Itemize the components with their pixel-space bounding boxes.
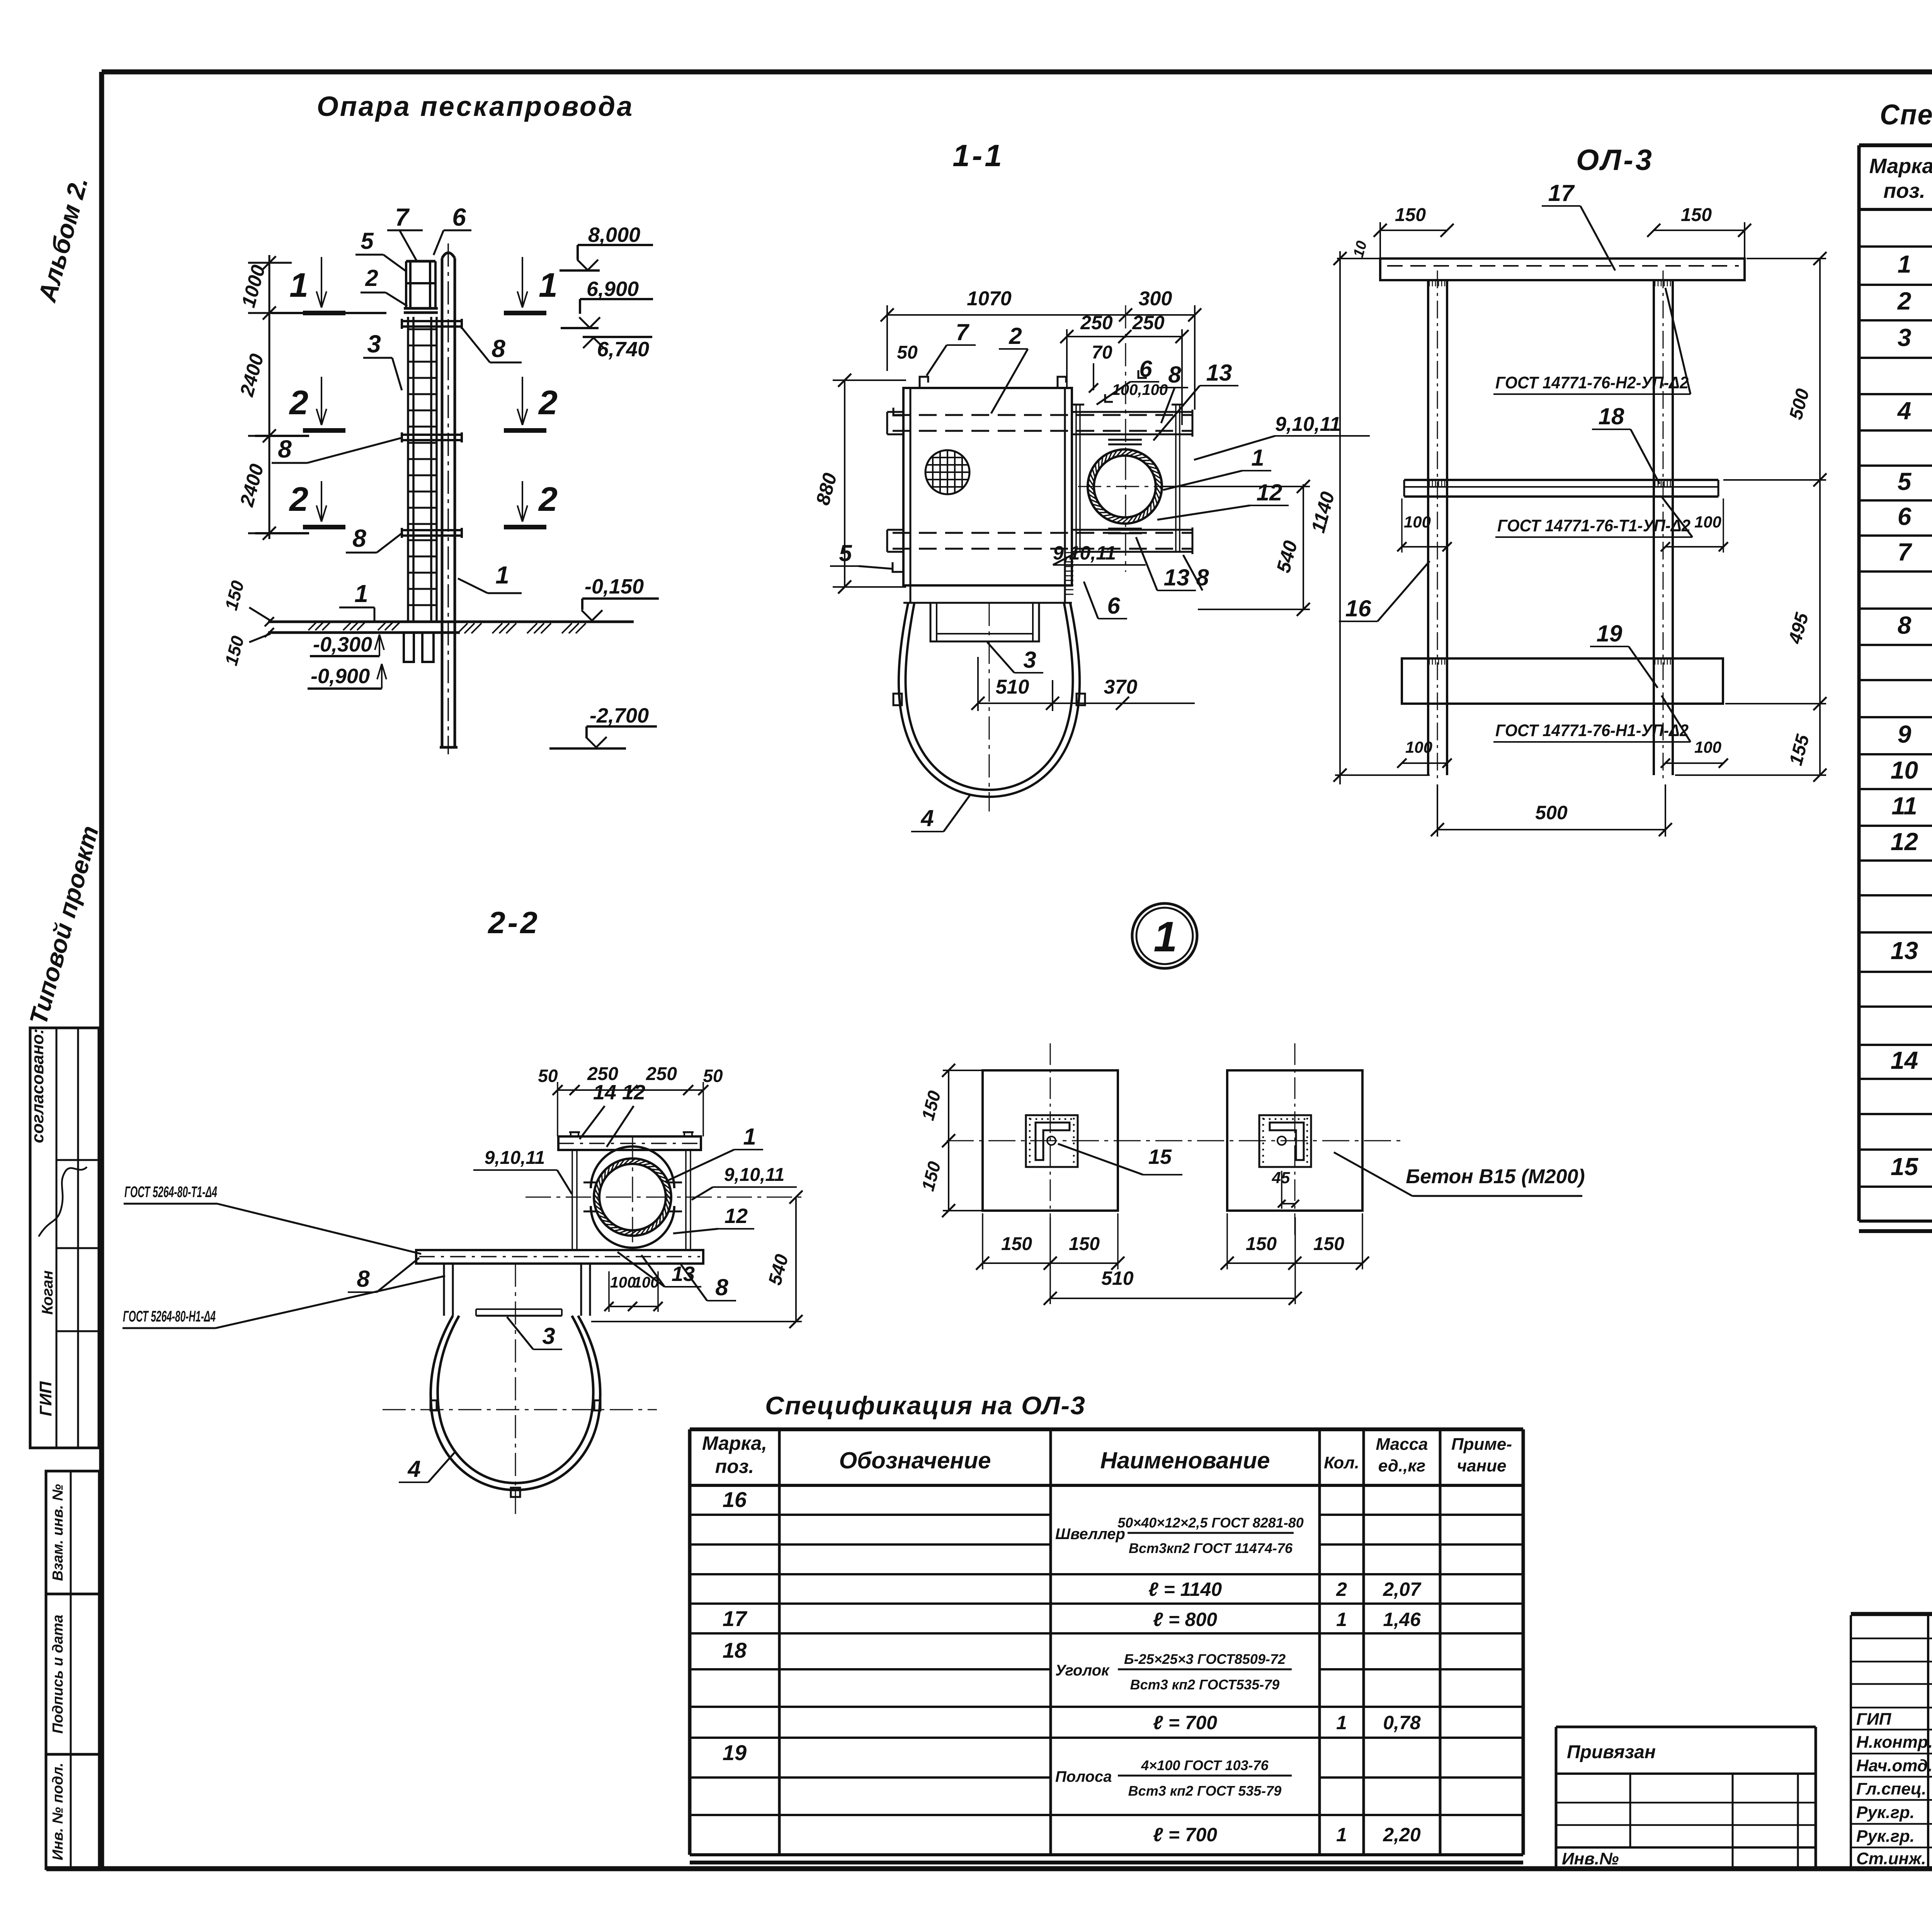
- svg-text:поз.: поз.: [1883, 179, 1925, 202]
- svg-text:3: 3: [367, 330, 381, 358]
- svg-text:14: 14: [593, 1081, 616, 1104]
- svg-text:Н.контр.: Н.контр.: [1856, 1733, 1932, 1752]
- svg-text:16: 16: [723, 1487, 747, 1512]
- svg-text:2: 2: [289, 480, 308, 518]
- svg-text:100: 100: [1694, 738, 1721, 756]
- svg-text:Инв. № подл.: Инв. № подл.: [50, 1763, 66, 1861]
- svg-text:Спецификация на опору песко: Спецификация на опору пескопровода: [1880, 99, 1932, 131]
- svg-text:Опара пескапровода: Опара пескапровода: [317, 91, 634, 122]
- svg-text:50: 50: [538, 1066, 558, 1086]
- svg-text:11: 11: [1891, 792, 1917, 820]
- svg-text:500: 500: [1535, 802, 1568, 823]
- svg-text:14: 14: [1891, 1046, 1918, 1074]
- svg-text:ℓ = 700: ℓ = 700: [1153, 1824, 1217, 1846]
- svg-text:100: 100: [1694, 513, 1721, 531]
- svg-text:150: 150: [1681, 205, 1712, 225]
- svg-text:Подпись и дата: Подпись и дата: [50, 1614, 66, 1733]
- svg-text:-0,300: -0,300: [313, 633, 372, 656]
- svg-text:5: 5: [839, 540, 852, 566]
- svg-text:Нач.отд.: Нач.отд.: [1856, 1756, 1932, 1775]
- svg-text:19: 19: [723, 1740, 747, 1765]
- svg-text:Инв.№: Инв.№: [1562, 1849, 1619, 1868]
- svg-text:18: 18: [723, 1638, 747, 1662]
- svg-text:Масса: Масса: [1376, 1435, 1428, 1454]
- svg-text:9: 9: [1898, 720, 1912, 748]
- svg-text:ГОСТ 14771-76-Н1-УП-Δ2: ГОСТ 14771-76-Н1-УП-Δ2: [1495, 721, 1689, 740]
- svg-text:8: 8: [352, 524, 366, 552]
- svg-text:2: 2: [1009, 323, 1022, 349]
- svg-text:15: 15: [1891, 1153, 1919, 1180]
- svg-text:2: 2: [1336, 1579, 1347, 1600]
- svg-text:100: 100: [1405, 738, 1432, 756]
- svg-text:1: 1: [289, 266, 308, 304]
- svg-text:18: 18: [1599, 403, 1624, 429]
- svg-text:13: 13: [1164, 565, 1190, 590]
- svg-text:Кол.: Кол.: [1324, 1453, 1359, 1472]
- svg-text:Рук.гр.: Рук.гр.: [1856, 1827, 1915, 1846]
- svg-text:50: 50: [703, 1066, 723, 1086]
- svg-text:3: 3: [1023, 647, 1036, 673]
- svg-text:чание: чание: [1457, 1456, 1506, 1475]
- svg-text:4: 4: [1897, 397, 1912, 425]
- svg-text:150: 150: [1001, 1234, 1032, 1254]
- svg-text:Привязан: Привязан: [1567, 1742, 1656, 1762]
- svg-text:4: 4: [920, 805, 934, 831]
- svg-text:8: 8: [1196, 565, 1209, 590]
- svg-text:2,20: 2,20: [1383, 1824, 1421, 1846]
- svg-text:70: 70: [1092, 342, 1112, 363]
- svg-text:45: 45: [1272, 1169, 1290, 1187]
- svg-text:Марка,: Марка,: [1869, 155, 1932, 178]
- svg-text:Б-25×25×3 ГОСТ8509-72: Б-25×25×3 ГОСТ8509-72: [1124, 1651, 1286, 1667]
- svg-text:3: 3: [542, 1323, 555, 1349]
- svg-text:Вст3кп2 ГОСТ 11474-76: Вст3кп2 ГОСТ 11474-76: [1129, 1540, 1293, 1556]
- svg-text:9,10,11: 9,10,11: [724, 1165, 785, 1185]
- svg-text:4: 4: [407, 1456, 420, 1482]
- svg-text:17: 17: [1548, 180, 1575, 206]
- svg-text:8,000: 8,000: [588, 223, 640, 247]
- svg-text:2: 2: [538, 480, 558, 518]
- svg-text:10: 10: [1891, 756, 1918, 784]
- svg-text:1: 1: [1336, 1609, 1347, 1630]
- svg-text:100: 100: [633, 1274, 659, 1291]
- svg-text:19: 19: [1597, 621, 1622, 646]
- svg-text:ОЛ-3: ОЛ-3: [1576, 144, 1654, 177]
- svg-text:16: 16: [1345, 595, 1371, 621]
- svg-text:150: 150: [1069, 1234, 1100, 1254]
- svg-text:Приме-: Приме-: [1451, 1435, 1512, 1454]
- svg-text:150: 150: [1395, 205, 1426, 225]
- svg-text:8: 8: [715, 1274, 728, 1300]
- svg-text:Полоса: Полоса: [1055, 1768, 1112, 1785]
- svg-text:250: 250: [1080, 312, 1113, 333]
- svg-text:1: 1: [495, 561, 509, 589]
- svg-text:1,46: 1,46: [1383, 1609, 1421, 1630]
- svg-text:ГОСТ 14771-76-Н2-УП-Δ2: ГОСТ 14771-76-Н2-УП-Δ2: [1495, 373, 1689, 392]
- svg-text:Гл.спец.: Гл.спец.: [1856, 1779, 1926, 1798]
- svg-text:150: 150: [1246, 1234, 1277, 1254]
- svg-text:13: 13: [1891, 937, 1918, 964]
- svg-text:-0,150: -0,150: [585, 575, 644, 598]
- svg-text:1: 1: [1153, 913, 1177, 961]
- svg-text:250: 250: [646, 1064, 677, 1084]
- svg-text:3: 3: [1898, 324, 1912, 352]
- svg-text:2-2: 2-2: [487, 905, 540, 940]
- svg-text:2: 2: [1897, 287, 1912, 315]
- svg-text:2: 2: [538, 383, 558, 422]
- svg-text:согласовано:: согласовано:: [28, 1029, 47, 1143]
- svg-text:100: 100: [1404, 513, 1431, 531]
- svg-text:ℓ = 700: ℓ = 700: [1153, 1712, 1217, 1733]
- svg-text:ГОСТ 5264-80-Н1-Δ4: ГОСТ 5264-80-Н1-Δ4: [123, 1308, 216, 1325]
- svg-text:9,10,11: 9,10,11: [485, 1148, 545, 1168]
- svg-text:1: 1: [1251, 445, 1264, 471]
- svg-text:2: 2: [289, 383, 308, 422]
- svg-text:13: 13: [1206, 360, 1232, 386]
- svg-text:6: 6: [452, 203, 466, 231]
- svg-text:7: 7: [956, 319, 969, 345]
- svg-text:ГОСТ 5264-80-Т1-Δ4: ГОСТ 5264-80-Т1-Δ4: [124, 1184, 217, 1201]
- svg-text:12: 12: [622, 1081, 645, 1104]
- svg-text:Марка,: Марка,: [702, 1432, 767, 1454]
- svg-text:Бетон В15 (М200): Бетон В15 (М200): [1406, 1165, 1585, 1188]
- svg-text:1: 1: [354, 580, 368, 607]
- svg-text:0,78: 0,78: [1383, 1712, 1421, 1733]
- svg-text:ед.,кг: ед.,кг: [1378, 1456, 1425, 1475]
- svg-text:50×40×12×2,5 ГОСТ 8281-80: 50×40×12×2,5 ГОСТ 8281-80: [1117, 1515, 1304, 1531]
- svg-text:ℓ = 800: ℓ = 800: [1153, 1609, 1217, 1630]
- svg-text:7: 7: [1898, 538, 1913, 566]
- svg-text:6: 6: [1107, 593, 1120, 619]
- svg-text:5: 5: [1898, 468, 1912, 495]
- svg-text:510: 510: [1101, 1267, 1134, 1289]
- svg-text:ГИП: ГИП: [1856, 1710, 1892, 1729]
- svg-text:ℓ = 1140: ℓ = 1140: [1148, 1579, 1222, 1600]
- svg-text:6,900: 6,900: [587, 277, 639, 301]
- svg-text:2,07: 2,07: [1383, 1579, 1422, 1600]
- svg-text:250: 250: [1132, 312, 1165, 333]
- svg-text:6,740: 6,740: [597, 338, 649, 361]
- svg-text:510: 510: [996, 676, 1029, 698]
- svg-text:6: 6: [1898, 503, 1912, 531]
- svg-text:8: 8: [1168, 362, 1181, 388]
- svg-text:Взам. инв. №: Взам. инв. №: [50, 1484, 66, 1581]
- svg-text:13: 13: [672, 1262, 695, 1286]
- svg-text:8: 8: [492, 335, 505, 362]
- svg-text:9,10,11: 9,10,11: [1275, 413, 1341, 435]
- svg-text:1070: 1070: [967, 287, 1012, 310]
- svg-text:Вст3 кп2 ГОСТ535-79: Вст3 кп2 ГОСТ535-79: [1130, 1677, 1280, 1692]
- svg-text:1-1: 1-1: [952, 138, 1004, 173]
- svg-text:4×100 ГОСТ 103-76: 4×100 ГОСТ 103-76: [1141, 1757, 1269, 1773]
- svg-text:1: 1: [539, 266, 558, 304]
- svg-text:-0,900: -0,900: [311, 665, 370, 688]
- svg-text:1: 1: [1898, 250, 1912, 278]
- svg-text:1: 1: [743, 1124, 756, 1150]
- svg-text:ГИП: ГИП: [36, 1381, 55, 1417]
- svg-text:7: 7: [395, 203, 410, 231]
- svg-text:17: 17: [723, 1606, 748, 1631]
- svg-text:8: 8: [278, 435, 292, 463]
- svg-text:Наименование: Наименование: [1100, 1448, 1270, 1473]
- svg-text:1: 1: [1336, 1824, 1347, 1846]
- svg-text:2: 2: [365, 265, 378, 291]
- svg-text:Обозначение: Обозначение: [839, 1448, 991, 1473]
- svg-text:8: 8: [1898, 611, 1912, 639]
- svg-text:1: 1: [1336, 1712, 1347, 1733]
- svg-text:5: 5: [361, 228, 374, 254]
- svg-text:12: 12: [724, 1204, 748, 1228]
- svg-text:50: 50: [897, 342, 918, 363]
- svg-text:-2,700: -2,700: [590, 704, 649, 727]
- svg-text:12: 12: [1257, 480, 1282, 505]
- svg-text:300: 300: [1139, 287, 1172, 310]
- svg-text:Ст.инж.: Ст.инж.: [1856, 1849, 1926, 1868]
- svg-text:Швеллер: Швеллер: [1055, 1526, 1125, 1543]
- svg-text:поз.: поз.: [715, 1456, 754, 1477]
- svg-text:8: 8: [357, 1266, 370, 1292]
- svg-text:100: 100: [610, 1274, 636, 1291]
- svg-text:Вст3 кп2 ГОСТ 535-79: Вст3 кп2 ГОСТ 535-79: [1128, 1783, 1282, 1799]
- svg-text:Спецификация на ОЛ-3: Спецификация на ОЛ-3: [765, 1391, 1086, 1420]
- svg-text:370: 370: [1104, 676, 1138, 698]
- svg-text:Уголок: Уголок: [1055, 1662, 1110, 1679]
- svg-text:15: 15: [1148, 1145, 1172, 1169]
- svg-text:100,100: 100,100: [1112, 381, 1168, 398]
- svg-text:150: 150: [1313, 1234, 1344, 1254]
- svg-text:12: 12: [1891, 828, 1918, 856]
- svg-text:Рук.гр.: Рук.гр.: [1856, 1803, 1915, 1822]
- svg-text:Коган: Коган: [39, 1271, 56, 1315]
- svg-text:ГОСТ 14771-76-Т1-УП-Δ2: ГОСТ 14771-76-Т1-УП-Δ2: [1497, 516, 1691, 535]
